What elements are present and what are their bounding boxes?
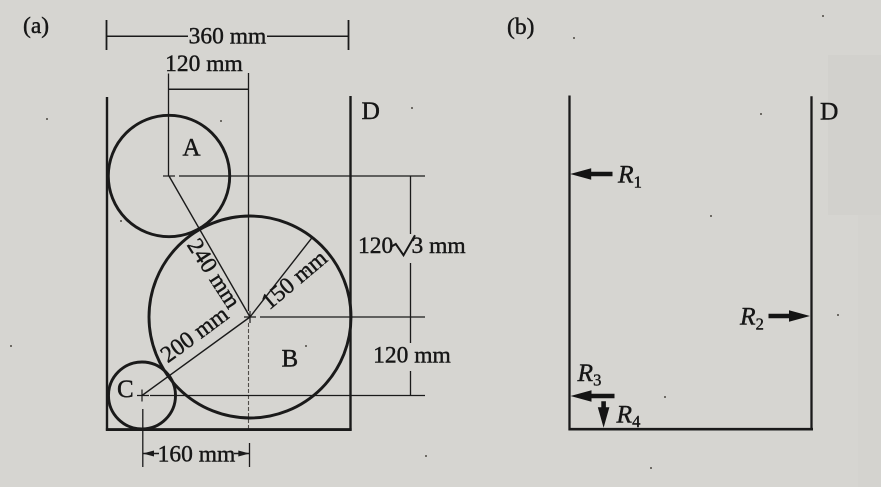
centre mark B [244, 311, 256, 323]
svg-text:120 mm: 120 mm [373, 343, 451, 369]
svg-text:360 mm: 360 mm [189, 23, 267, 49]
extension line from B centre (horizontal) [260, 316, 425, 318]
dimension 360 mm: line left segment [107, 35, 189, 37]
svg-text:(b): (b) [507, 14, 534, 40]
centre mark C [137, 390, 149, 402]
svg-text:A: A [183, 135, 201, 162]
dimension 160 mm: right arrow [238, 451, 249, 457]
force arrow R2 (right wall) [769, 310, 811, 322]
svg-text:120: 120 [358, 233, 393, 259]
force arrow R3 (bottom left, horizontal) [571, 390, 615, 402]
cylinder C [109, 362, 176, 429]
container (b): right wall [810, 96, 812, 430]
container (a): bottom [106, 428, 352, 431]
container (a): right wall [349, 96, 351, 431]
extension line through B centre (vertical, faint lower part) [248, 323, 250, 430]
centre mark A [163, 175, 175, 177]
radius line A-B (240 mm) [169, 176, 250, 317]
extension line below C centre [142, 409, 144, 467]
force arrow R1 (left wall) [570, 168, 612, 180]
svg-text:C: C [117, 376, 134, 403]
paper shading patch (top right) [828, 55, 881, 215]
cylinder A [108, 115, 229, 236]
vertical dimension line 120 (upper segment) [410, 317, 412, 343]
radius line of B (150 mm) [250, 237, 312, 317]
svg-text:(a): (a) [23, 13, 49, 39]
container (b): left wall [568, 96, 570, 431]
vertical dimension line 120sqrt3 (lower segment) [410, 263, 412, 317]
force arrow R4 (bottom, vertical) [598, 401, 610, 428]
dimension 120 mm top: line [169, 88, 249, 90]
extension line from A centre (horizontal) [179, 175, 425, 177]
svg-text:3 mm: 3 mm [412, 233, 466, 259]
vertical dimension line 120sqrt3 (upper segment) [410, 176, 412, 234]
svg-text:B: B [282, 346, 299, 373]
extension line through B centre (vertical, upper solid part) [248, 73, 250, 311]
vertical dimension line 120 (lower segment) [410, 371, 412, 396]
label 120sqrt3 mm: radical sign [392, 235, 416, 255]
paper shading patch (right edge) [858, 215, 881, 487]
cylinder B [149, 216, 351, 418]
dimension 360 mm: right tick [348, 20, 350, 50]
dimension 160 mm: left arrow [143, 451, 154, 457]
svg-text:160 mm: 160 mm [158, 441, 236, 467]
dimension 360 mm: line right segment [267, 35, 349, 37]
extension line through A centre (vertical) [168, 74, 170, 177]
container (a): left wall [106, 97, 108, 431]
container (b): bottom [569, 428, 814, 431]
svg-text:120 mm: 120 mm [165, 51, 243, 77]
extension line from C centre (horizontal) [150, 395, 425, 397]
svg-text:D: D [820, 97, 838, 126]
radius line C-B (200 mm) [142, 317, 250, 396]
dimension 360 mm: left tick [106, 20, 108, 50]
svg-text:D: D [362, 96, 380, 125]
extension line below B centre line [249, 443, 251, 467]
